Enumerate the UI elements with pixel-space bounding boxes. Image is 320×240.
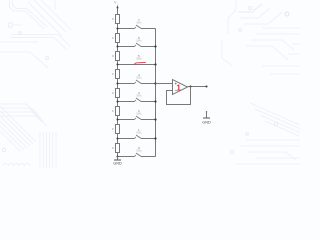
svg-text:0: 0 — [141, 151, 142, 153]
svg-text:R: R — [112, 127, 114, 131]
svg-text:2: 2 — [141, 114, 142, 116]
svg-text:1: 1 — [141, 133, 142, 135]
svg-text:4: 4 — [141, 78, 142, 80]
svg-text:1: 1 — [176, 82, 181, 92]
svg-text:R: R — [112, 91, 114, 95]
svg-text:R: R — [112, 72, 114, 76]
svg-text:7: 7 — [141, 23, 142, 25]
svg-text:5: 5 — [141, 59, 142, 61]
svg-text:R: R — [112, 17, 114, 21]
svg-text:R: R — [112, 54, 114, 58]
svg-text:R: R — [112, 109, 114, 113]
svg-text:GND: GND — [202, 120, 211, 124]
svg-text:6: 6 — [141, 41, 142, 43]
svg-text:R: R — [112, 146, 114, 150]
svg-text:R: R — [112, 36, 114, 40]
svg-text:3: 3 — [141, 96, 142, 98]
svg-text:GND: GND — [113, 161, 122, 165]
